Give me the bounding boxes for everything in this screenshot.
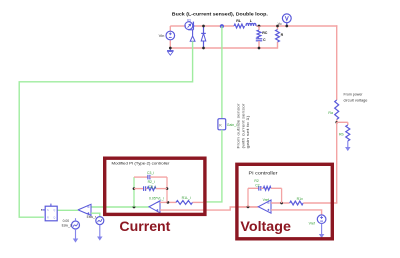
svg-text:From power: From power xyxy=(344,92,364,97)
label Current xyxy=(119,218,170,234)
svg-text:Vref: Vref xyxy=(263,198,269,202)
wire sense below gain xyxy=(203,130,222,202)
label Vo xyxy=(278,22,282,26)
svg-text:(with current sensor: (with current sensor xyxy=(241,103,245,149)
wire comparator out to latch xyxy=(57,209,78,211)
svg-text:Q: Q xyxy=(53,209,55,212)
diode D1 xyxy=(201,26,206,48)
voltage feedback left vertical xyxy=(247,188,249,207)
svg-text:Buck (L-current sensed), Doubl: Buck (L-current sensed), Double loop. xyxy=(172,11,269,17)
svg-text:C2: C2 xyxy=(255,183,259,187)
comparator U2 xyxy=(78,204,91,215)
resistor R1L_i xyxy=(176,201,193,205)
label R2_i xyxy=(148,180,155,184)
label C2_i xyxy=(149,185,156,189)
ground below Esw_sq xyxy=(73,229,77,242)
svg-text:C3_i: C3_i xyxy=(147,171,154,175)
voltage controller box xyxy=(237,164,332,239)
junction dot diode bottom xyxy=(202,47,205,50)
svg-text:PI controller: PI controller xyxy=(249,171,279,176)
note from inside sense (rotated) xyxy=(237,103,251,149)
title text xyxy=(172,11,269,17)
junction dot voltage feedback left xyxy=(247,206,250,209)
wire bottom rail xyxy=(170,47,278,49)
voltage source Vin xyxy=(166,26,175,48)
svg-text:Current: Current xyxy=(119,218,170,234)
label C xyxy=(263,38,266,42)
label RC xyxy=(262,31,268,35)
svg-text:R: R xyxy=(281,33,284,37)
svg-text:Rb: Rb xyxy=(339,132,344,136)
source Vref xyxy=(317,215,326,224)
junction dot minus node xyxy=(167,201,170,204)
junction dot feedback left xyxy=(133,206,136,209)
label R1v xyxy=(297,197,303,201)
current tap node (blue) xyxy=(220,24,224,28)
wire divider to Rb xyxy=(337,122,348,125)
label Ra xyxy=(328,111,333,115)
junction dot divider xyxy=(335,121,338,124)
svg-text:RL: RL xyxy=(236,19,242,23)
svg-text:From outside sensor: From outside sensor xyxy=(237,103,241,149)
label Voltage xyxy=(240,218,291,234)
wire current opamp plus to voltage opamp out xyxy=(160,207,258,210)
source Esw_sq xyxy=(72,218,80,229)
resistor R1v xyxy=(290,201,304,205)
feedback branch C3_i xyxy=(134,175,167,180)
label modified PI controller xyxy=(112,160,171,165)
junction dot RC branch top xyxy=(258,25,261,28)
label Vin xyxy=(159,33,165,38)
label RL xyxy=(236,19,242,23)
svg-text:Modified PI (Type-2) controlle: Modified PI (Type-2) controller xyxy=(112,160,171,165)
svg-text:#3: #3 xyxy=(187,19,191,23)
svg-text:L: L xyxy=(250,19,253,23)
svg-text:R2_i: R2_i xyxy=(148,180,155,184)
wire R1v to divider xyxy=(303,202,337,204)
op-amp U3 voltage xyxy=(258,200,271,213)
svg-text:circuit voltage: circuit voltage xyxy=(344,98,369,103)
label R xyxy=(281,33,284,37)
wire top rail Vin to mosfet xyxy=(170,25,185,27)
wire opamp out to comparator xyxy=(91,206,149,208)
label L xyxy=(250,19,253,23)
wire top rail inductor to output node xyxy=(256,25,337,27)
wire output to divider xyxy=(336,25,338,100)
svg-text:0.05*VL_i: 0.05*VL_i xyxy=(149,197,164,201)
wire top rail mosfet to inductor xyxy=(195,25,234,27)
svg-text:R1L_i: R1L_i xyxy=(182,196,191,200)
ground below Vin xyxy=(167,48,174,55)
wire Ra to node xyxy=(336,120,338,123)
feedback branch C2_i R2_i xyxy=(134,186,167,191)
svg-text:Ra: Ra xyxy=(328,111,333,115)
label mosfet #3 xyxy=(187,19,191,23)
label R1L_i xyxy=(182,196,191,200)
svg-text:Vref: Vref xyxy=(309,222,315,226)
feedback branch C2 R2 xyxy=(248,186,282,191)
label C2 xyxy=(255,183,259,187)
svg-text:Vo: Vo xyxy=(278,22,282,26)
label Esw_sq xyxy=(62,219,72,227)
op-amp U1 current xyxy=(149,201,160,213)
wire C bottom stub xyxy=(258,41,260,48)
junction dot branch2 left xyxy=(133,187,136,190)
ground below Esw_r xyxy=(98,225,102,240)
wire voltage opamp output xyxy=(235,206,258,208)
capacitor C xyxy=(256,39,262,41)
junction dot voltmeter xyxy=(285,25,288,28)
svg-text:Vin: Vin xyxy=(159,33,165,38)
svg-text:Gain_i: Gain_i xyxy=(227,123,237,127)
label Gain_i xyxy=(227,123,237,127)
svg-text:C: C xyxy=(263,38,266,42)
svg-text:S: S xyxy=(47,209,49,212)
label from power circuit voltage xyxy=(344,92,369,103)
resistor R xyxy=(276,26,280,42)
label R2 xyxy=(254,179,258,183)
resistor Rb xyxy=(346,125,350,141)
wire current sense down xyxy=(221,26,223,119)
svg-text:R: R xyxy=(47,217,49,220)
wire R1L_i to box edge xyxy=(193,201,204,203)
junction dot switch node top xyxy=(202,25,205,28)
label Vref node xyxy=(263,198,269,202)
resistor Ra xyxy=(335,100,339,120)
svg-text:Q: Q xyxy=(53,217,55,220)
label C3_i xyxy=(147,171,154,175)
feedback left vertical xyxy=(133,177,135,207)
wire minus input xyxy=(160,201,176,203)
ground below Vref xyxy=(320,224,324,238)
feedback right vertical xyxy=(166,177,168,202)
mosfet Q1 xyxy=(185,22,195,36)
junction dot C branch bottom xyxy=(258,47,261,50)
label 0.05*VL_i xyxy=(149,197,164,201)
gain block Gain_i xyxy=(218,119,226,130)
sr latch xyxy=(41,204,57,221)
wire comparator bottom input xyxy=(91,213,100,217)
source Esw_r xyxy=(96,217,104,225)
resistor RL xyxy=(234,24,245,28)
wire voltage plus input xyxy=(271,210,322,215)
label Rb xyxy=(339,132,344,136)
svg-text:Esw_r: Esw_r xyxy=(87,215,97,219)
label Vref xyxy=(309,222,315,226)
voltage feedback right vertical xyxy=(281,188,283,203)
junction dot voltage minus node xyxy=(280,202,283,205)
current controller box xyxy=(105,158,205,214)
ground below Rb xyxy=(346,141,350,151)
gate input triangle xyxy=(190,36,195,41)
junction dot branch2 right xyxy=(166,187,169,190)
wire divider node down xyxy=(336,122,338,203)
svg-text:RC: RC xyxy=(262,31,268,35)
label PI controller xyxy=(249,171,279,176)
wire gate drive loop xyxy=(19,41,192,217)
label Esw_r xyxy=(87,215,97,219)
wire voltage minus input xyxy=(271,202,290,204)
inductor L xyxy=(246,23,256,26)
junction dot Vin bottom xyxy=(169,47,172,50)
resistor RC xyxy=(257,30,261,38)
svg-text:Voltage: Voltage xyxy=(240,218,291,234)
svg-text:gain set to 1): gain set to 1) xyxy=(246,114,250,148)
svg-text:Esw_s: Esw_s xyxy=(62,223,72,227)
voltmeter Vo xyxy=(282,14,291,26)
svg-text:C2_i: C2_i xyxy=(149,185,156,189)
svg-text:R1v: R1v xyxy=(297,197,303,201)
junction dot R branch top xyxy=(276,25,279,28)
wire R branch bottom stub xyxy=(277,42,279,49)
wire RC branch top stub xyxy=(258,26,260,30)
